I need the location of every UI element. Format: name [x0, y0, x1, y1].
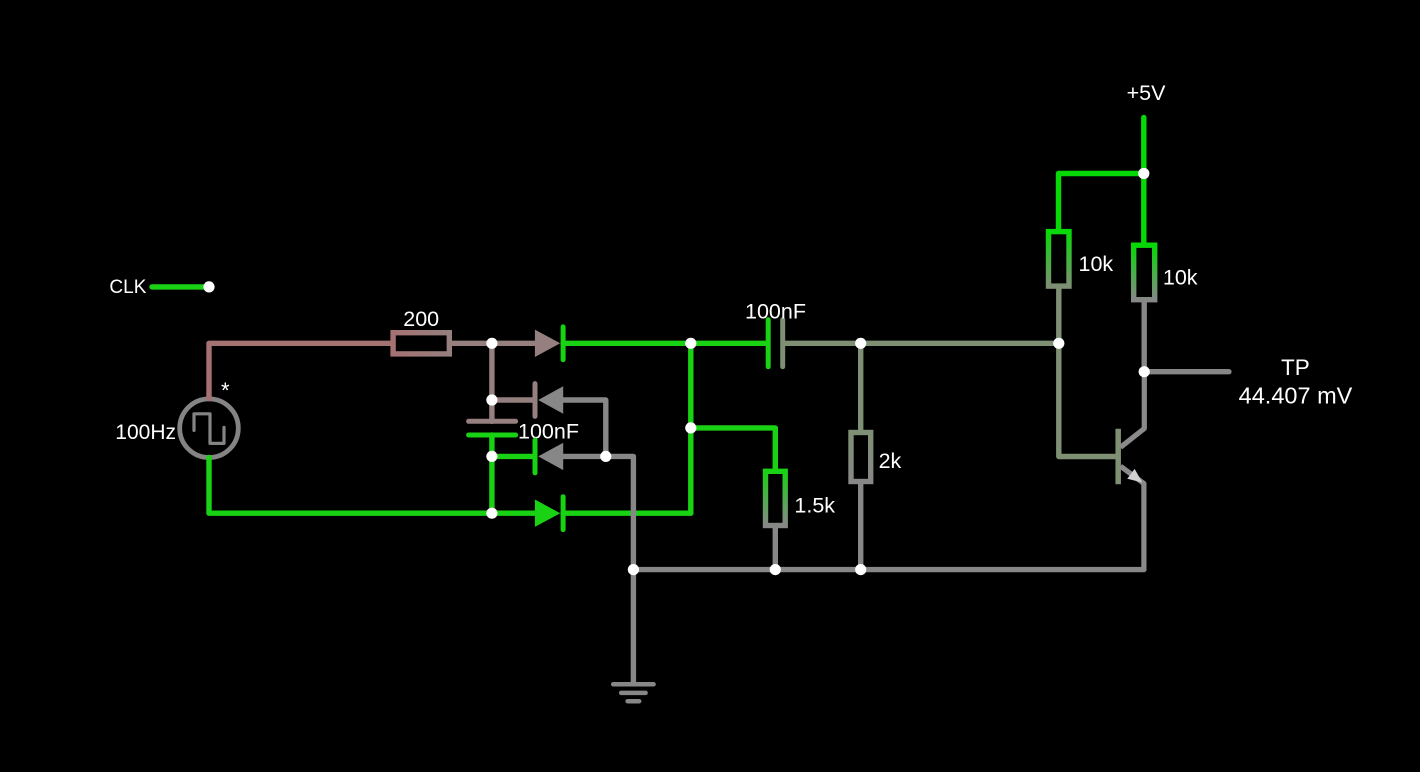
diode D3 triangle — [538, 443, 563, 470]
ground symbol — [613, 684, 653, 701]
junction node gnd-2k — [855, 564, 866, 575]
wire C2 to node H — [785, 341, 1059, 346]
wire node C down to node D — [489, 456, 494, 513]
label 10k R4 — [1163, 266, 1198, 290]
wire 2k bottom lead — [858, 484, 863, 569]
svg-text:2k: 2k — [879, 449, 902, 473]
wire source top to resistor 200 — [209, 343, 390, 398]
wire ground rail — [633, 567, 1144, 572]
wire TP probe stub — [1144, 369, 1229, 374]
wire node C to diode D3 cathode — [492, 454, 533, 459]
svg-text:100Hz: 100Hz — [115, 421, 176, 444]
transistor Q1 collector — [1121, 372, 1145, 448]
svg-text:TP: TP — [1281, 355, 1310, 380]
diode D2 cathode bar — [533, 384, 538, 417]
wire source bottom to node D — [209, 458, 492, 514]
wire node H down to 2k — [858, 343, 863, 430]
wire 10k1 bottom to node J — [1056, 289, 1061, 344]
junction node B — [486, 394, 497, 405]
wire ground lead — [631, 570, 636, 683]
wire 1.5k bottom lead — [773, 528, 778, 569]
junction node F — [685, 338, 696, 349]
label C2 100nF — [745, 300, 806, 324]
resistor 10k R4 — [1134, 245, 1155, 300]
junction node G — [685, 422, 696, 433]
label 2k — [879, 449, 902, 473]
wire D2 anode to corner — [563, 400, 606, 456]
wire node G to resistor 1.5k — [691, 428, 776, 469]
resistor R1.5k — [766, 471, 786, 525]
node CLK label — [109, 277, 146, 298]
capacitor C2 left plate — [766, 320, 771, 367]
wire resistor to node A and diode D1 anode — [452, 341, 535, 346]
resistor 10k R3 — [1049, 232, 1070, 287]
svg-text:*: * — [221, 378, 230, 403]
junction node gnd-1.5k — [770, 564, 781, 575]
junction node TP — [1139, 366, 1150, 377]
svg-text:10k: 10k — [1079, 252, 1114, 276]
diode D1 triangle — [535, 330, 560, 357]
wire +5V lead — [1141, 118, 1146, 243]
transistor Q1 base bar — [1115, 429, 1121, 485]
label 1.5k — [794, 494, 835, 518]
wire node B to diode D2 cathode — [492, 397, 533, 402]
diode D4 triangle — [535, 500, 560, 527]
capacitor C1 bottom lead — [489, 435, 494, 456]
svg-text:200: 200 — [403, 307, 439, 331]
label 10k R3 — [1079, 252, 1114, 276]
wire D3 anode to node E — [563, 454, 606, 459]
wire node F to capacitor C2 — [691, 341, 766, 346]
junction node +5V — [1138, 168, 1149, 179]
svg-text:44.407 mV: 44.407 mV — [1239, 383, 1353, 409]
junction node gnd-left — [628, 564, 639, 575]
label 200 — [403, 307, 439, 331]
label 100Hz — [115, 421, 176, 444]
voltage source V1 100Hz square — [180, 399, 239, 458]
resistor R 200 — [393, 333, 449, 354]
label 44.407 mV — [1239, 383, 1353, 409]
wire 10k2 bottom to node TP — [1141, 302, 1146, 371]
diode D4 cathode bar — [561, 497, 566, 530]
junction node A — [486, 338, 497, 349]
svg-text:+5V: +5V — [1127, 81, 1167, 105]
junction node J — [1053, 338, 1064, 349]
wire CLK stub — [152, 284, 209, 289]
svg-text:10k: 10k — [1163, 266, 1198, 290]
label C1 100nF — [518, 420, 579, 444]
label TP — [1281, 355, 1310, 380]
transistor Q1 emitter — [1121, 466, 1144, 569]
resistor R2k — [851, 433, 871, 482]
junction node CLK post — [203, 281, 214, 292]
capacitor C1 top plate — [469, 419, 516, 424]
wire node A down to node B — [489, 343, 494, 400]
junction node H — [855, 338, 866, 349]
wire D1 cathode to node F — [563, 341, 691, 346]
junction node D — [486, 508, 497, 519]
capacitor C1 bottom plate — [469, 433, 516, 438]
wire node E to ground drop — [606, 456, 634, 569]
diode D3 cathode bar — [533, 440, 538, 473]
wire D4 cathode up right rail — [563, 343, 691, 513]
marker * on source — [221, 378, 230, 403]
wire node J to transistor base — [1059, 343, 1115, 456]
svg-text:100nF: 100nF — [745, 300, 806, 324]
junction node C — [486, 451, 497, 462]
svg-text:1.5k: 1.5k — [794, 494, 835, 518]
wire node D to diode D4 anode — [492, 511, 535, 516]
label +5V — [1127, 81, 1167, 105]
diode D1 cathode bar — [561, 327, 566, 360]
svg-text:100nF: 100nF — [518, 420, 579, 444]
capacitor C2 right plate — [780, 320, 785, 367]
junction node E — [600, 451, 611, 462]
capacitor C1 top lead — [489, 400, 494, 421]
wire +5V branch to 10k1 — [1059, 174, 1144, 229]
transistor Q1 emitter arrow — [1127, 469, 1142, 483]
svg-text:CLK: CLK — [109, 277, 146, 298]
diode D2 triangle — [538, 386, 563, 413]
